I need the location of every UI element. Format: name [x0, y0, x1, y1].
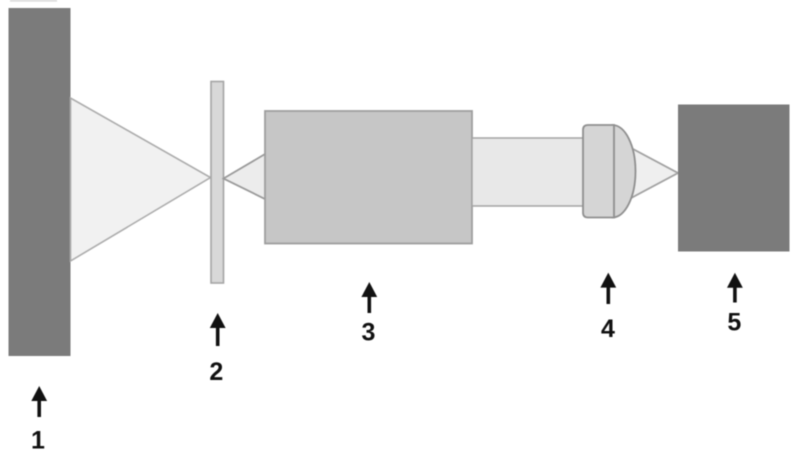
focused cone from lens 4 to target 5: [618, 141, 678, 205]
arrow 2: [210, 313, 226, 346]
detector / target 5: [678, 105, 790, 252]
faint scan artifact line: [10, 0, 57, 2]
arrow 1: [31, 386, 47, 417]
svg-text:2: 2: [209, 358, 223, 386]
svg-text:1: 1: [31, 427, 45, 455]
light source / screen plate 1: [9, 8, 71, 356]
svg-text:3: 3: [362, 319, 376, 347]
svg-text:5: 5: [727, 309, 741, 337]
instrument body 3: [265, 111, 472, 244]
arrow 5: [727, 273, 743, 303]
lens 4 collar: [583, 125, 614, 218]
collimated beam from body 3 to lens 4: [472, 138, 590, 206]
diverging cone from aperture 2 to body 3: [224, 154, 267, 200]
converging light cone from plate 1 to aperture 2: [71, 98, 211, 261]
lens 4 convex cap: [613, 125, 636, 218]
arrow 3: [361, 282, 377, 313]
arrow 4: [600, 273, 616, 304]
aperture slit 2: [211, 82, 224, 284]
svg-text:4: 4: [601, 315, 615, 343]
